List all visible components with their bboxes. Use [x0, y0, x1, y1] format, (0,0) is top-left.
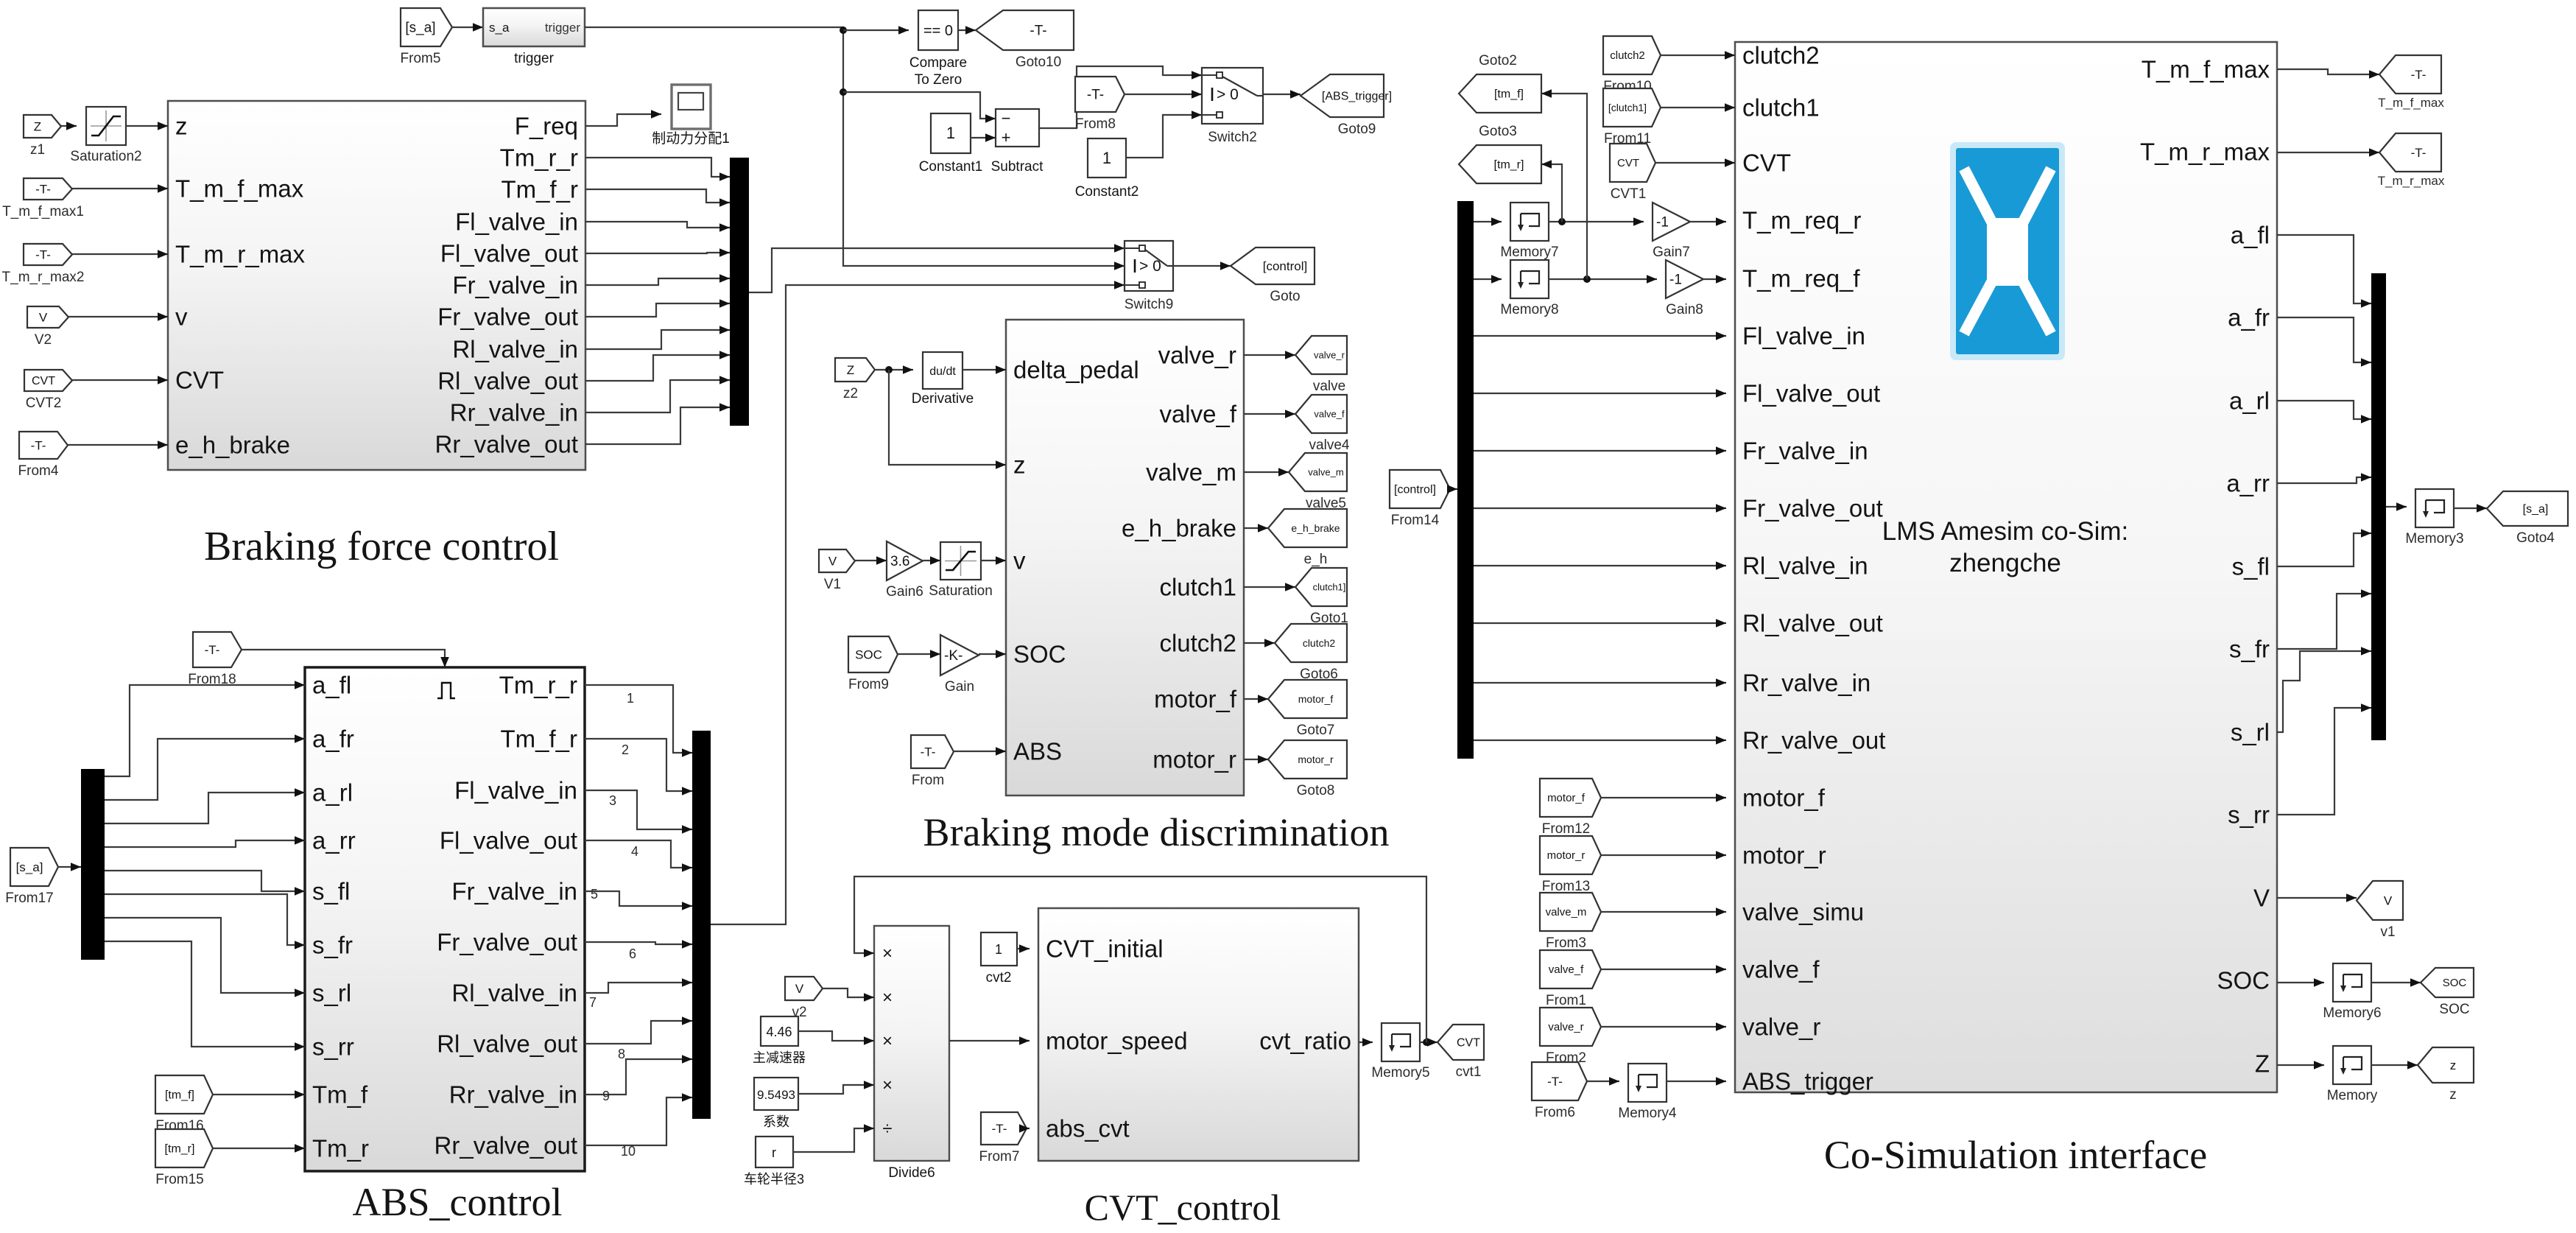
- svg-text:s_rl: s_rl: [312, 980, 351, 1007]
- From tag From8 -T-: [1075, 77, 1125, 112]
- svg-text:Derivative: Derivative: [912, 391, 974, 407]
- svg-text:CVT: CVT: [32, 375, 55, 387]
- svg-text:From6: From6: [1535, 1105, 1575, 1120]
- wire Memory7 to Gain7: [1549, 221, 1644, 222]
- From tag From14 [control]: [1390, 470, 1450, 508]
- svg-text:z: z: [2449, 1087, 2457, 1103]
- svg-text:T_m_req_r: T_m_req_r: [1742, 207, 1861, 234]
- wire demux to a_fr: [105, 739, 305, 800]
- svg-text:-K-: -K-: [944, 648, 963, 664]
- gain Gain8: [1666, 260, 1703, 298]
- wire Fr_valve_out to mux: [585, 303, 730, 317]
- svg-text:Rr_valve_out: Rr_valve_out: [1742, 727, 1885, 754]
- gain Gain7: [1653, 203, 1690, 241]
- svg-text:Memory5: Memory5: [1371, 1065, 1429, 1081]
- memory Memory7: [1510, 203, 1549, 241]
- wire Gain8 to T_m_req_f: [1703, 278, 1726, 280]
- svg-text:1: 1: [1102, 149, 1111, 167]
- scope block (Chinese label): [672, 85, 711, 129]
- svg-text:[tm_f]: [tm_f]: [1494, 88, 1524, 100]
- Goto tag cvt1 CVT: [1437, 1025, 1484, 1060]
- From tag From (ABS): [911, 735, 954, 768]
- wire ABS Tm_f_r to mux: [585, 739, 692, 791]
- wire s_rl to output mux: [2277, 651, 2371, 732]
- svg-text:trigger: trigger: [545, 21, 581, 35]
- wire From2 to valve_r: [1601, 1026, 1726, 1027]
- svg-text:Rr_valve_in: Rr_valve_in: [449, 1081, 577, 1109]
- LMS Amesim logo: [1950, 142, 2065, 360]
- wire From5 to trigger: [452, 27, 483, 28]
- wire mux output to Switch9 input 1: [749, 248, 1125, 292]
- svg-text:Tm_r_r: Tm_r_r: [500, 144, 578, 172]
- From tag From6 -T-: [1532, 1062, 1587, 1100]
- svg-text:-1: -1: [1656, 214, 1669, 230]
- svg-text:[tm_r]: [tm_r]: [1494, 158, 1524, 171]
- svg-text:cvt1: cvt1: [1456, 1064, 1482, 1080]
- wire From9 to Gain: [898, 653, 940, 655]
- svg-text:valve4: valve4: [1309, 438, 1350, 453]
- svg-text:clutch2: clutch2: [1610, 49, 1645, 62]
- svg-text:Rr_valve_in: Rr_valve_in: [450, 399, 578, 426]
- svg-text:V1: V1: [824, 577, 841, 592]
- svg-text:valve_m: valve_m: [1546, 906, 1587, 918]
- svg-text:Goto9: Goto9: [1338, 122, 1376, 137]
- svg-text:T_m_r_max: T_m_r_max: [2140, 138, 2270, 166]
- svg-text:v: v: [1013, 547, 1026, 575]
- wire From16 to Tm_f: [213, 1094, 305, 1095]
- wire z2 to z input: [889, 370, 1006, 465]
- memory Memory5: [1382, 1023, 1420, 1061]
- From tag T_m_r_max2: [24, 244, 72, 265]
- constant 9.5493: [754, 1078, 798, 1110]
- svg-text:5: 5: [591, 887, 598, 902]
- svg-text:4: 4: [631, 844, 638, 859]
- svg-text:Rr_valve_in: Rr_valve_in: [1742, 670, 1871, 697]
- wire Switch2 to Goto9: [1263, 94, 1301, 95]
- memory Memory: [2333, 1046, 2371, 1084]
- svg-text:T_m_r_max: T_m_r_max: [175, 241, 306, 268]
- junction trigger/Compare: [840, 27, 847, 34]
- svg-text:valve_r: valve_r: [1548, 1021, 1583, 1033]
- wire ABS Fr_valve_out to mux: [585, 942, 692, 944]
- svg-text:valve_m: valve_m: [1146, 459, 1236, 486]
- svg-text:a_rl: a_rl: [2229, 387, 2270, 415]
- svg-text:z2: z2: [843, 386, 858, 401]
- wire ABS Fl_valve_in to mux: [585, 790, 692, 829]
- junction z2 branch: [885, 366, 893, 373]
- wire F_req to scope: [585, 114, 661, 126]
- svg-text:Saturation2: Saturation2: [70, 149, 141, 164]
- wire Memory5 to cvt1: [1420, 1041, 1429, 1043]
- From tag V2: [27, 306, 68, 328]
- memory Memory3: [2415, 489, 2454, 527]
- svg-text:CVT_control: CVT_control: [1085, 1187, 1281, 1228]
- svg-text:Fl_valve_out: Fl_valve_out: [1742, 380, 1880, 407]
- From tag From10 clutch2: [1603, 36, 1661, 74]
- svg-text:Fl_valve_in: Fl_valve_in: [1742, 323, 1865, 350]
- svg-text:valve_f: valve_f: [1742, 956, 1820, 983]
- wire From4 to e_h_brake input: [68, 444, 168, 446]
- svg-text:clutch1: clutch1: [1159, 574, 1236, 601]
- svg-text:T_m_f_max: T_m_f_max: [2378, 96, 2444, 110]
- From tag From7 -T-: [981, 1112, 1027, 1145]
- svg-text:2: 2: [622, 742, 629, 757]
- svg-text:Switch9: Switch9: [1125, 297, 1174, 312]
- svg-text:Goto4: Goto4: [2516, 530, 2555, 546]
- svg-text:clutch2: clutch2: [1159, 630, 1236, 657]
- wire From17 to demux: [58, 866, 81, 868]
- svg-text:SOC: SOC: [2443, 977, 2467, 989]
- wire demux to Memory7: [1474, 221, 1502, 222]
- wire demux to a_fl: [105, 685, 305, 776]
- svg-text:v1: v1: [2380, 924, 2395, 940]
- From tag From15 [tm_r]: [155, 1129, 213, 1167]
- svg-text:Gain6: Gain6: [886, 584, 923, 600]
- svg-text:CVT1: CVT1: [1611, 186, 1647, 202]
- wire ABS Tm_r_r to mux: [585, 685, 692, 753]
- svg-text:1: 1: [627, 691, 634, 706]
- wire Memory8 to Goto2: [1541, 94, 1587, 279]
- svg-text:-T-: -T-: [921, 745, 936, 759]
- svg-text:> 0: > 0: [1139, 258, 1161, 275]
- wire 9.5493 to Divide6: [798, 1085, 874, 1094]
- svg-text:Memory6: Memory6: [2323, 1005, 2381, 1021]
- wire mux to Memory3: [2386, 506, 2407, 507]
- wire Subtract to Switch2 input 1: [1039, 66, 1202, 128]
- saturation Saturation: [940, 542, 981, 580]
- svg-text:Rr_valve_out: Rr_valve_out: [435, 431, 578, 458]
- switch Switch9: [1125, 241, 1173, 291]
- wire Memory3 to Goto4: [2454, 507, 2487, 509]
- constant 4.46: [761, 1016, 798, 1046]
- svg-text:−: −: [1002, 109, 1011, 127]
- svg-text:Memory: Memory: [2327, 1088, 2378, 1103]
- wire Memory to z tag: [2371, 1064, 2418, 1066]
- wire cvt_ratio to Memory5: [1359, 1041, 1373, 1043]
- svg-text:From13: From13: [1542, 879, 1590, 894]
- junction Memory8 branch: [1583, 275, 1591, 283]
- svg-text:Tm_f: Tm_f: [312, 1081, 368, 1109]
- svg-text:Tm_r: Tm_r: [312, 1135, 369, 1162]
- svg-text:×: ×: [882, 988, 893, 1008]
- svg-text:Rr_valve_out: Rr_valve_out: [434, 1132, 577, 1159]
- svg-text:valve_m: valve_m: [1308, 466, 1343, 477]
- wire Rr_valve_out to mux: [585, 407, 730, 444]
- wire s_fl to output mux: [2277, 533, 2371, 566]
- Goto tag Goto6 clutch2: [1275, 624, 1347, 662]
- svg-text:Fr_valve_out: Fr_valve_out: [437, 929, 577, 956]
- svg-text:cvt_ratio: cvt_ratio: [1259, 1027, 1351, 1055]
- wire demux to s_fr: [105, 894, 305, 945]
- svg-text:T_m_req_f: T_m_req_f: [1742, 265, 1860, 292]
- svg-text:[tm_f]: [tm_f]: [165, 1089, 194, 1101]
- svg-text:s_rl: s_rl: [2231, 719, 2270, 746]
- ABS trigger pulse icon: [437, 683, 455, 698]
- svg-text:valve_simu: valve_simu: [1742, 899, 1864, 926]
- svg-text:1: 1: [946, 124, 955, 142]
- Goto tag z: [2418, 1047, 2474, 1083]
- From tag From3 valve_m: [1540, 893, 1601, 931]
- svg-text:Goto3: Goto3: [1479, 124, 1517, 139]
- svg-text:Fl_valve_in: Fl_valve_in: [454, 777, 577, 804]
- svg-text:motor_speed: motor_speed: [1046, 1027, 1188, 1055]
- svg-text:Goto7: Goto7: [1297, 723, 1335, 738]
- wire ABS Fl_valve_out to mux: [585, 840, 692, 868]
- svg-text:[tm_r]: [tm_r]: [165, 1142, 195, 1155]
- wire v2 to Divide6: [823, 988, 874, 997]
- svg-text:CVT: CVT: [1742, 150, 1791, 177]
- svg-text:e_h_brake: e_h_brake: [1291, 522, 1340, 534]
- wire demux to valve input y=1005: [1474, 740, 1726, 741]
- svg-text:9.5493: 9.5493: [757, 1088, 795, 1102]
- From tag From1 valve_f: [1540, 950, 1601, 988]
- wire ABS Rl_valve_out to mux: [585, 1021, 692, 1044]
- svg-text:Memory8: Memory8: [1500, 302, 1558, 317]
- svg-text:a_fr: a_fr: [312, 726, 354, 753]
- svg-text:Fr_valve_in: Fr_valve_in: [1742, 438, 1868, 465]
- wire Memory8 to Gain8: [1549, 278, 1657, 280]
- svg-text:Rl_valve_out: Rl_valve_out: [437, 368, 578, 395]
- svg-text:LMS Amesim co-Sim:: LMS Amesim co-Sim:: [1882, 517, 2129, 546]
- svg-text:Subtract: Subtract: [991, 159, 1044, 175]
- wire Compare to Goto10: [958, 29, 976, 31]
- svg-text:clutch1: clutch1: [1742, 94, 1820, 122]
- Goto tag valve valve_r: [1295, 336, 1347, 374]
- svg-text:From15: From15: [155, 1172, 203, 1187]
- Goto tag valve5 valve_m: [1289, 453, 1347, 491]
- svg-text:s_a: s_a: [489, 21, 510, 35]
- From tag From9 SOC: [848, 636, 898, 672]
- wire Tm_r_r to mux: [585, 158, 730, 177]
- divide block Divide6: [874, 926, 949, 1161]
- svg-text:3: 3: [609, 793, 616, 808]
- wire demux to valve input y=534: [1474, 393, 1726, 394]
- wire demux to valve input y=927: [1474, 682, 1726, 684]
- mux bar (ABS outputs): [692, 731, 711, 1119]
- svg-text:-1: -1: [1669, 272, 1682, 287]
- svg-text:T_m_f_max: T_m_f_max: [175, 175, 304, 203]
- mux bar (Braking force control outputs): [730, 158, 749, 426]
- wire Saturation to v input: [981, 560, 1006, 561]
- svg-text:Memory4: Memory4: [1618, 1106, 1677, 1121]
- Goto tag e_h e_h_brake: [1268, 509, 1347, 547]
- svg-text:CVT: CVT: [1457, 1036, 1480, 1049]
- From tag z1 Z: [24, 115, 61, 138]
- From tag From12 motor_f: [1540, 779, 1601, 817]
- subsystem ABS_control: [305, 667, 585, 1171]
- junction CVT feedback: [1423, 1039, 1430, 1046]
- svg-text:valve_r: valve_r: [1314, 349, 1345, 360]
- svg-text:Gain7: Gain7: [1653, 245, 1690, 260]
- wire Rl_valve_in to mux: [585, 330, 730, 349]
- svg-text:V: V: [2253, 885, 2270, 912]
- wire to Compare To Zero: [843, 29, 909, 31]
- svg-text:valve: valve: [1313, 379, 1345, 394]
- Goto tag Goto1 clutch1]: [1295, 568, 1347, 606]
- svg-text:7: 7: [589, 995, 597, 1010]
- wire From12 to motor_f: [1601, 797, 1726, 798]
- wire From13 to motor_r: [1601, 854, 1726, 856]
- svg-text:clutch2: clutch2: [1742, 42, 1820, 69]
- svg-text:From1: From1: [1546, 993, 1586, 1008]
- svg-text:s_fr: s_fr: [2229, 636, 2270, 663]
- wire ABS mux output to Switch9 input 3: [711, 285, 1125, 924]
- svg-text:Constant1: Constant1: [919, 159, 983, 175]
- svg-text:Rl_valve_in: Rl_valve_in: [452, 336, 578, 363]
- svg-text:motor_r: motor_r: [1742, 842, 1826, 869]
- svg-text:主减速器: 主减速器: [753, 1050, 806, 1065]
- svg-text:-T-: -T-: [1030, 23, 1046, 38]
- svg-text:车轮半径3: 车轮半径3: [744, 1172, 804, 1187]
- svg-text:motor_f: motor_f: [1742, 784, 1826, 812]
- memory Memory8: [1510, 260, 1549, 298]
- wire SOC to Memory6: [2277, 982, 2324, 983]
- svg-text:-T-: -T-: [1547, 1075, 1563, 1089]
- wire V out: [2277, 897, 2357, 899]
- svg-text:-T-: -T-: [2411, 146, 2427, 160]
- From tag v2 V: [785, 977, 823, 1000]
- wire demux to valve input y=690: [1474, 507, 1726, 509]
- svg-text:[control]: [control]: [1394, 483, 1436, 496]
- wire Constant1 to Subtract plus: [971, 137, 996, 138]
- svg-text:== 0: == 0: [923, 23, 953, 39]
- svg-text:r: r: [772, 1145, 776, 1160]
- wire From11 to clutch1: [1661, 107, 1735, 108]
- wire From6 to Memory4: [1587, 1081, 1619, 1082]
- svg-text:9: 9: [602, 1089, 610, 1103]
- From tag CVT2: [24, 370, 72, 391]
- svg-text:Gain8: Gain8: [1666, 302, 1703, 317]
- wire demux to valve input y=768: [1474, 565, 1726, 566]
- svg-text:Goto2: Goto2: [1479, 53, 1517, 68]
- svg-text:Co-Simulation interface: Co-Simulation interface: [1824, 1133, 2207, 1177]
- subtract block: [996, 109, 1039, 147]
- svg-text:s_fl: s_fl: [2232, 553, 2270, 580]
- wire demux to Memory8: [1474, 278, 1502, 280]
- svg-text:Rl_valve_in: Rl_valve_in: [451, 980, 577, 1007]
- wire to Subtract minus input: [843, 92, 996, 119]
- svg-text:Tm_f_r: Tm_f_r: [501, 176, 578, 203]
- wire z2 to Derivative: [875, 369, 913, 370]
- svg-text:a_fr: a_fr: [2228, 304, 2270, 331]
- svg-text:Fl_valve_out: Fl_valve_out: [440, 827, 577, 854]
- svg-text:abs_cvt: abs_cvt: [1046, 1115, 1130, 1142]
- svg-text:-T-: -T-: [35, 247, 51, 261]
- Goto tag Goto10 -T-: [976, 10, 1074, 50]
- svg-text:F_req: F_req: [515, 113, 578, 140]
- wire valve_r out: [1244, 354, 1295, 356]
- From tag From16 [tm_f]: [155, 1075, 213, 1114]
- wire z1 to Saturation2: [61, 125, 77, 127]
- svg-text:ABS: ABS: [1013, 738, 1062, 765]
- svg-text:T_m_f_max: T_m_f_max: [2142, 56, 2270, 83]
- svg-text:CVT2: CVT2: [26, 396, 62, 411]
- wire From8 to Switch2 input 2: [1125, 94, 1202, 95]
- constant Constant1: [931, 113, 971, 153]
- From tag From11 [clutch1]: [1603, 88, 1661, 127]
- svg-text:z: z: [1013, 452, 1026, 479]
- wire ABS Rr_valve_in to mux: [585, 1059, 692, 1095]
- svg-text:T_m_r_max2: T_m_r_max2: [2, 270, 85, 285]
- svg-text:V2: V2: [35, 332, 52, 348]
- svg-text:SOC: SOC: [855, 647, 882, 661]
- svg-text:[ABS_trigger]: [ABS_trigger]: [1322, 90, 1392, 102]
- svg-text:Switch2: Switch2: [1208, 130, 1257, 145]
- wire Fl_valve_out to mux: [585, 253, 730, 253]
- svg-text:v: v: [175, 303, 188, 331]
- wire r to Divide6: [793, 1128, 874, 1152]
- svg-text:motor_f: motor_f: [1298, 693, 1334, 705]
- svg-text:trigger: trigger: [514, 51, 555, 66]
- svg-text:valve_f: valve_f: [1159, 401, 1236, 428]
- svg-text:V: V: [39, 310, 48, 324]
- svg-text:a_rl: a_rl: [312, 779, 353, 807]
- svg-text:×: ×: [882, 1031, 893, 1051]
- svg-text:clutch1]: clutch1]: [1313, 581, 1346, 592]
- svg-text:clutch2: clutch2: [1303, 637, 1336, 649]
- From tag From13 motor_r: [1540, 836, 1601, 874]
- wire Gain7 to T_m_req_r: [1690, 221, 1726, 222]
- svg-text:[s_a]: [s_a]: [405, 20, 435, 35]
- Goto tag T_m_r_max -T-: [2379, 133, 2441, 172]
- svg-text:Z: Z: [2255, 1050, 2270, 1078]
- junction Memory7 branch: [1558, 218, 1566, 225]
- Goto tag Goto8 motor_r: [1268, 740, 1347, 779]
- constant r: [756, 1137, 793, 1167]
- wire into cvt1: [1429, 1041, 1437, 1043]
- Goto tag v1 V: [2357, 881, 2403, 920]
- From tag V1: [819, 549, 855, 572]
- wire Divide6 to motor_speed: [949, 1040, 1030, 1041]
- wire clutch2 out: [1244, 642, 1275, 644]
- svg-text:Memory3: Memory3: [2405, 531, 2463, 547]
- svg-text:Tm_f_r: Tm_f_r: [500, 726, 577, 753]
- svg-text:Memory7: Memory7: [1500, 245, 1558, 260]
- wire ABS Rr_valve_out to mux: [585, 1097, 692, 1145]
- svg-text:Braking mode discrimination: Braking mode discrimination: [923, 810, 1390, 854]
- wire T_m_r_max out: [2277, 152, 2379, 153]
- mux bar (co-sim outputs a/s): [2371, 273, 2386, 740]
- svg-text:valve_f: valve_f: [1314, 408, 1345, 419]
- svg-text:Z: Z: [34, 119, 41, 133]
- svg-text:CVT: CVT: [1617, 157, 1639, 169]
- derivative block: [923, 352, 963, 389]
- wire Memory6 to SOC tag: [2371, 982, 2421, 983]
- svg-text:From3: From3: [1546, 935, 1586, 951]
- subsystem Co-Simulation interface (LMS Amesim): [1735, 42, 2277, 1092]
- svg-text:CVT_initial: CVT_initial: [1046, 935, 1164, 963]
- wire From15 to Tm_r: [213, 1148, 305, 1149]
- svg-text:a_fl: a_fl: [2231, 222, 2270, 249]
- From tag From4: [19, 432, 68, 459]
- svg-text:du/dt: du/dt: [929, 365, 956, 378]
- demux bar (control signals): [1457, 201, 1474, 759]
- svg-text:-T-: -T-: [992, 1122, 1007, 1136]
- wire Memory4 to ABS_trigger: [1667, 1081, 1726, 1082]
- wire e_h_brake out: [1244, 527, 1268, 529]
- memory Memory4: [1628, 1064, 1667, 1102]
- svg-text:Rl_valve_out: Rl_valve_out: [437, 1030, 577, 1058]
- From tag From2 valve_r: [1540, 1008, 1601, 1046]
- svg-text:Goto8: Goto8: [1297, 783, 1335, 798]
- wire Switch9 to Goto control: [1173, 265, 1231, 267]
- svg-text:4.46: 4.46: [766, 1025, 792, 1039]
- wire Fr_valve_in to mux: [585, 278, 730, 285]
- svg-text:CVT: CVT: [175, 367, 224, 394]
- svg-text:s_fl: s_fl: [312, 878, 350, 905]
- svg-text:SOC: SOC: [1013, 641, 1066, 668]
- svg-text:8: 8: [618, 1047, 625, 1061]
